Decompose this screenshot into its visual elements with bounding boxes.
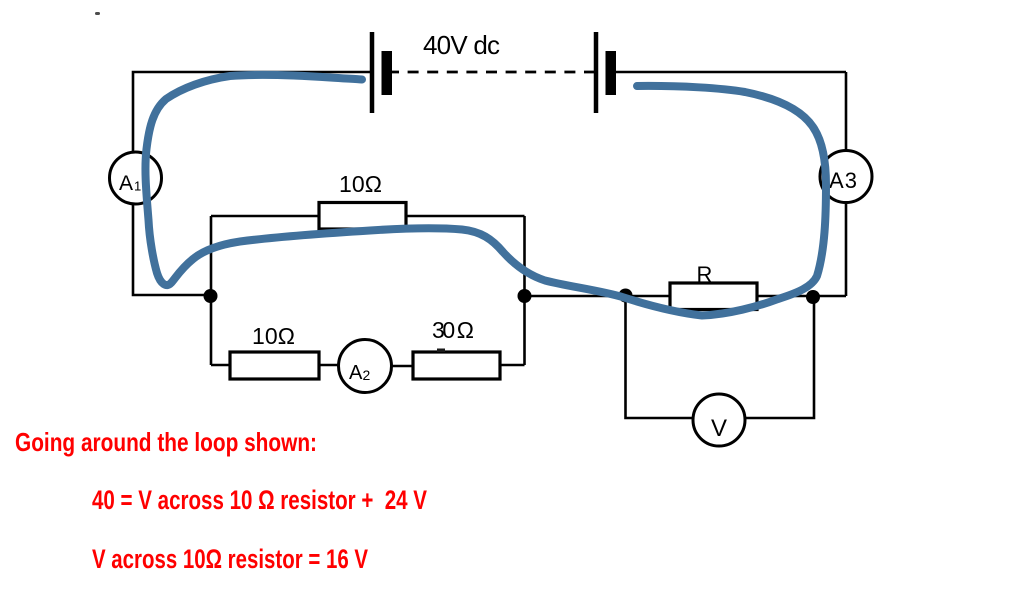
- svg-text:40 = V across 10 Ω resistor +: 40 = V across 10 Ω resistor + 24 V: [92, 485, 427, 515]
- svg-text:V: V: [711, 415, 727, 442]
- svg-text:2: 2: [363, 367, 371, 383]
- svg-text:1: 1: [134, 179, 141, 194]
- svg-text:Going around the loop shown:: Going around the loop shown:: [15, 427, 317, 457]
- svg-text:10Ω: 10Ω: [339, 171, 382, 197]
- svg-text:40V dc: 40V dc: [423, 30, 500, 60]
- svg-text:V across 10Ω resistor = 16 V: V across 10Ω resistor = 16 V: [92, 544, 368, 574]
- svg-text:10Ω: 10Ω: [252, 323, 295, 349]
- svg-text:A: A: [349, 362, 363, 384]
- svg-text:30 Ω: 30 Ω: [432, 317, 474, 343]
- svg-text:R: R: [697, 262, 713, 287]
- svg-text:A: A: [119, 172, 133, 195]
- svg-text:A3: A3: [829, 168, 857, 193]
